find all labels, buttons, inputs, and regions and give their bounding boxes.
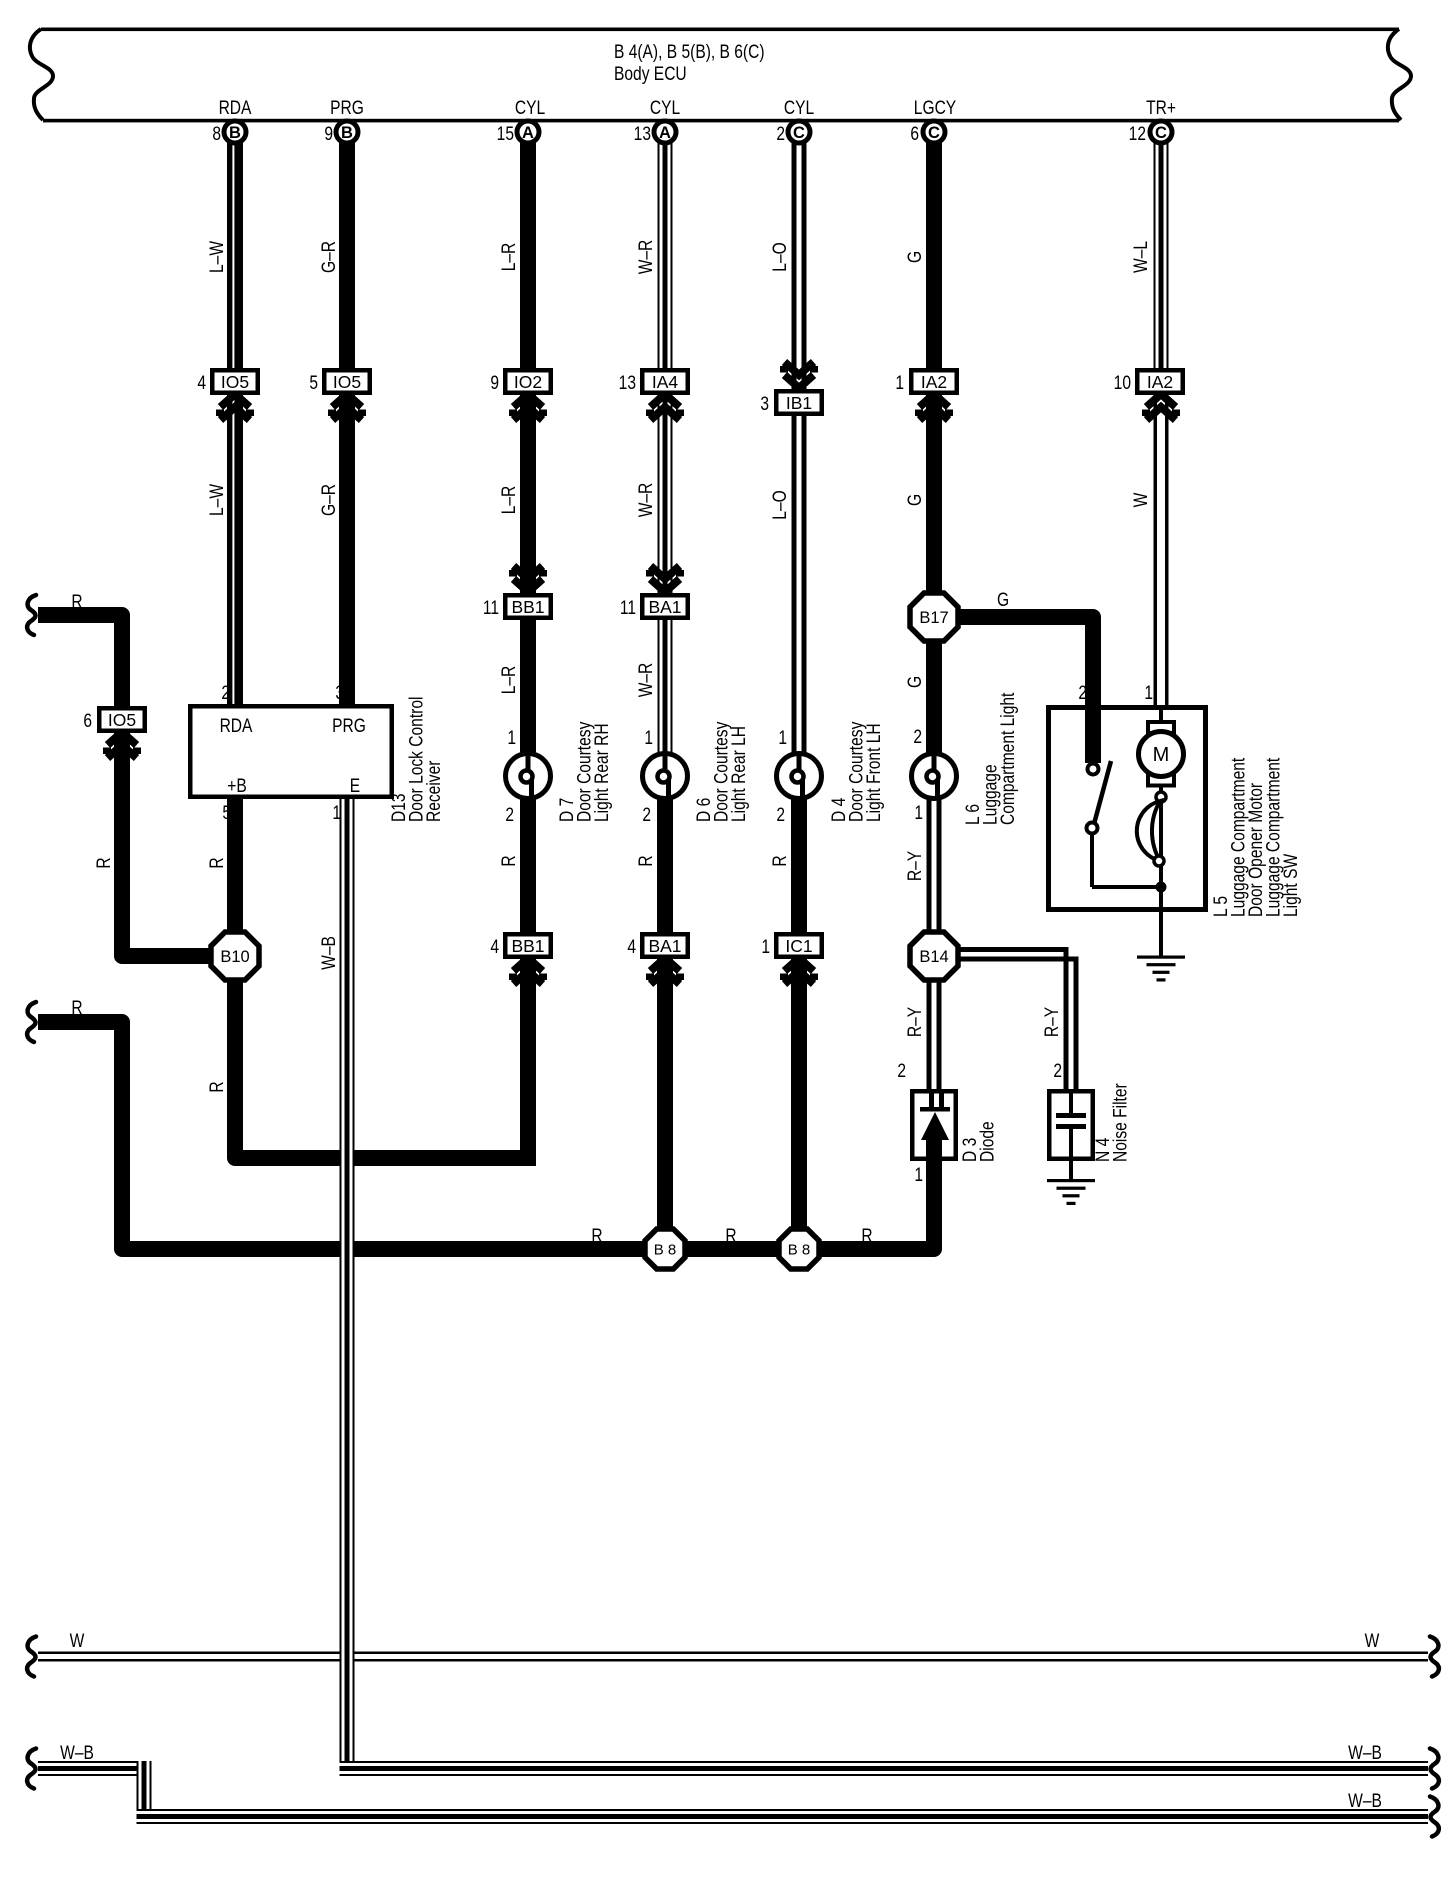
svg-text:W–B: W–B: [1348, 1790, 1382, 1812]
svg-text:G: G: [904, 251, 926, 263]
svg-text:BB1: BB1: [511, 936, 544, 956]
svg-text:D13Door Lock ControlReceiver: D13Door Lock ControlReceiver: [388, 697, 445, 822]
svg-text:W–B: W–B: [60, 1742, 94, 1764]
svg-text:13: 13: [619, 372, 636, 394]
svg-text:BA1: BA1: [648, 936, 681, 956]
svg-text:PRG: PRG: [332, 715, 366, 737]
svg-text:1: 1: [778, 727, 787, 749]
svg-text:C: C: [1155, 124, 1167, 142]
svg-text:G: G: [904, 676, 926, 688]
svg-text:L–R: L–R: [498, 486, 520, 515]
svg-text:W–B: W–B: [1348, 1742, 1382, 1764]
svg-text:8: 8: [212, 123, 221, 145]
svg-text:D 4Door CourtesyLight Front LH: D 4Door CourtesyLight Front LH: [828, 721, 885, 822]
svg-text:B 4(A), B 5(B), B 6(C): B 4(A), B 5(B), B 6(C): [614, 41, 765, 63]
svg-text:R: R: [498, 855, 520, 866]
svg-text:13: 13: [634, 123, 651, 145]
svg-text:4: 4: [627, 936, 636, 958]
svg-text:6: 6: [83, 710, 92, 732]
svg-text:2: 2: [913, 726, 922, 748]
svg-text:1: 1: [895, 372, 904, 394]
svg-text:R: R: [206, 1081, 228, 1092]
svg-text:4: 4: [197, 372, 206, 394]
svg-text:A: A: [659, 124, 671, 142]
svg-text:B 8: B 8: [788, 1241, 811, 1258]
svg-text:IO5: IO5: [333, 372, 361, 392]
svg-text:B17: B17: [919, 609, 948, 627]
svg-text:L–R: L–R: [498, 243, 520, 272]
svg-text:IA2: IA2: [921, 372, 947, 392]
svg-text:2: 2: [776, 123, 785, 145]
svg-text:R: R: [635, 855, 657, 866]
svg-text:R: R: [71, 591, 82, 613]
svg-text:W: W: [1130, 492, 1152, 507]
svg-text:D 3Diode: D 3Diode: [959, 1121, 998, 1162]
svg-text:+B: +B: [227, 775, 246, 797]
svg-text:1: 1: [507, 727, 516, 749]
svg-text:BB1: BB1: [511, 597, 544, 617]
svg-text:D 6Door CourtesyLight Rear LH: D 6Door CourtesyLight Rear LH: [693, 721, 750, 822]
svg-text:2: 2: [505, 804, 514, 826]
svg-text:RDA: RDA: [219, 97, 252, 119]
svg-text:W–R: W–R: [635, 663, 657, 698]
svg-text:C: C: [928, 124, 940, 142]
svg-text:PRG: PRG: [330, 97, 364, 119]
svg-text:CYL: CYL: [650, 97, 681, 119]
svg-text:15: 15: [497, 123, 514, 145]
svg-text:R: R: [591, 1225, 602, 1247]
svg-text:G: G: [904, 494, 926, 506]
svg-text:5: 5: [222, 802, 231, 824]
svg-text:L 5Luggage CompartmentDoor Ope: L 5Luggage CompartmentDoor Opener MotorL…: [1210, 758, 1302, 917]
svg-text:R: R: [71, 997, 82, 1019]
svg-text:9: 9: [490, 372, 499, 394]
svg-text:L–O: L–O: [769, 490, 791, 519]
svg-text:IA4: IA4: [652, 372, 679, 392]
svg-text:9: 9: [324, 123, 333, 145]
svg-text:W–B: W–B: [318, 936, 340, 970]
svg-text:LGCY: LGCY: [914, 97, 957, 119]
svg-text:1: 1: [1144, 682, 1153, 704]
svg-text:N 4Noise Filter: N 4Noise Filter: [1092, 1083, 1131, 1162]
svg-text:1: 1: [332, 802, 341, 824]
svg-text:G: G: [997, 589, 1009, 611]
svg-text:M: M: [1153, 744, 1170, 766]
svg-text:2: 2: [221, 682, 230, 704]
svg-text:2: 2: [897, 1060, 906, 1082]
svg-text:W–R: W–R: [635, 240, 657, 275]
svg-text:5: 5: [309, 372, 318, 394]
svg-text:R–Y: R–Y: [1041, 1006, 1063, 1037]
svg-text:R: R: [93, 857, 115, 868]
svg-text:L–R: L–R: [498, 666, 520, 695]
svg-text:B: B: [229, 124, 241, 142]
svg-text:IB1: IB1: [786, 393, 812, 413]
svg-text:B 8: B 8: [654, 1241, 677, 1258]
svg-text:W: W: [70, 1630, 85, 1652]
svg-text:L 6LuggageCompartment Light: L 6LuggageCompartment Light: [962, 692, 1019, 825]
svg-text:B14: B14: [919, 948, 948, 966]
svg-text:BA1: BA1: [648, 597, 681, 617]
svg-text:IO5: IO5: [221, 372, 249, 392]
svg-text:D 7Door CourtesyLight Rear RH: D 7Door CourtesyLight Rear RH: [556, 721, 613, 822]
svg-text:R: R: [769, 855, 791, 866]
svg-text:L–W: L–W: [206, 483, 228, 516]
svg-text:R–Y: R–Y: [904, 1006, 926, 1037]
svg-text:1: 1: [644, 727, 653, 749]
svg-text:3: 3: [335, 682, 344, 704]
svg-text:12: 12: [1129, 123, 1146, 145]
svg-text:E: E: [350, 775, 360, 797]
svg-text:R: R: [725, 1225, 736, 1247]
svg-text:B10: B10: [220, 948, 249, 966]
svg-text:IA2: IA2: [1147, 372, 1173, 392]
svg-text:TR+: TR+: [1146, 97, 1176, 119]
svg-text:W: W: [1365, 1630, 1380, 1652]
svg-text:IO5: IO5: [108, 710, 136, 730]
svg-text:11: 11: [483, 597, 499, 619]
svg-text:C: C: [793, 124, 805, 142]
svg-text:1: 1: [914, 802, 923, 824]
svg-text:G–R: G–R: [318, 241, 340, 273]
svg-text:W–L: W–L: [1130, 241, 1152, 273]
svg-text:L–W: L–W: [206, 240, 228, 273]
svg-text:2: 2: [642, 804, 651, 826]
svg-text:W–R: W–R: [635, 483, 657, 518]
svg-text:3: 3: [760, 393, 769, 415]
svg-text:R: R: [206, 857, 228, 868]
svg-text:IC1: IC1: [785, 936, 812, 956]
svg-text:IO2: IO2: [514, 372, 542, 392]
svg-text:CYL: CYL: [784, 97, 815, 119]
svg-text:A: A: [522, 124, 534, 142]
svg-text:L–O: L–O: [769, 242, 791, 271]
svg-text:6: 6: [910, 123, 919, 145]
svg-text:2: 2: [776, 804, 785, 826]
svg-text:R: R: [861, 1225, 872, 1247]
svg-text:2: 2: [1053, 1060, 1062, 1082]
svg-text:RDA: RDA: [220, 715, 253, 737]
svg-text:11: 11: [620, 597, 636, 619]
svg-text:4: 4: [490, 936, 499, 958]
svg-text:R–Y: R–Y: [904, 850, 926, 881]
svg-text:G–R: G–R: [318, 484, 340, 516]
svg-text:10: 10: [1114, 372, 1131, 394]
svg-text:Body ECU: Body ECU: [614, 63, 687, 85]
svg-text:B: B: [341, 124, 353, 142]
svg-text:1: 1: [914, 1164, 923, 1186]
svg-text:CYL: CYL: [515, 97, 546, 119]
svg-text:1: 1: [761, 936, 770, 958]
svg-text:2: 2: [1078, 682, 1087, 704]
